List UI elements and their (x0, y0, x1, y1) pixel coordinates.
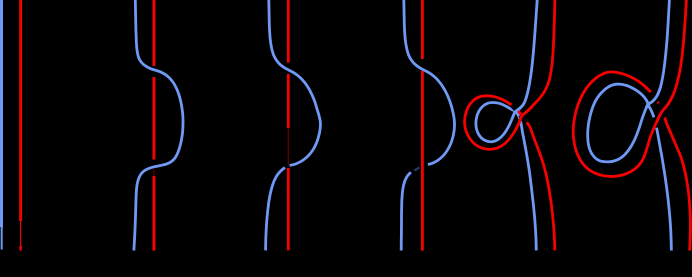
panel 5: red curve looping around blue loop (465, 0, 555, 250)
panel 6: black gap on red approach under blue descending (651, 92, 658, 102)
panel 3: red line upper segment (287, 0, 290, 63)
panel 6: red curve with big loop (573, 0, 690, 251)
panel 2: red line lower segment (152, 176, 155, 251)
panel 6: blue descending strand redrawn over tangle (646, 87, 661, 109)
panel 1: red line bright tip (19, 246, 22, 251)
panel 5: blue curve with small loop (476, 0, 537, 250)
panel 4: blue curve with bump (404, 0, 455, 165)
panel 2: red line upper segment (152, 0, 155, 66)
panel 2: red line middle segment (152, 77, 155, 160)
panel 4: red line upper segment (421, 0, 424, 59)
panel 3: red dark thin segment inside bump (287, 128, 289, 166)
panel 4: red line lower segment (421, 71, 424, 251)
panel 1: red line thin middle segment (20, 221, 22, 246)
panel 1: red vertical line (19, 0, 22, 221)
panel 6: blue curve with loop (588, 0, 672, 251)
panel 4: blue lower exit (401, 172, 411, 250)
panel 6: red descending strand redrawn over tangle (653, 96, 673, 130)
panel 3: red line segment below top crossing (287, 74, 290, 128)
panel 3: blue curve with bump ending in corner (269, 0, 321, 165)
panel 3: blue lower exit from corner (266, 168, 285, 251)
panel 5: black gap on red approach under blue descending (512, 105, 517, 110)
panel 5: black gap on exits under red descending (520, 115, 526, 123)
panel 5: blue descending strand redrawn over tangle (513, 103, 524, 117)
panel 6: black gap on blue exit under red descending (654, 118, 658, 128)
panel 4: blue dark segment passing under red (414, 168, 419, 171)
panel 1: blue line thin lower tail (1, 227, 3, 250)
panel 1: blue vertical line clipped at left edge (0, 0, 3, 227)
panel 2: blue curve with rightward bump (134, 0, 183, 251)
panel 5: red descending strand redrawn over tangle (515, 104, 534, 131)
panel 2: red dark sliver below lower crossing (153, 168, 155, 176)
panel 6: black gap on red approach at red self-crossing (658, 104, 665, 118)
panel 3: red line lower segment (287, 168, 290, 250)
